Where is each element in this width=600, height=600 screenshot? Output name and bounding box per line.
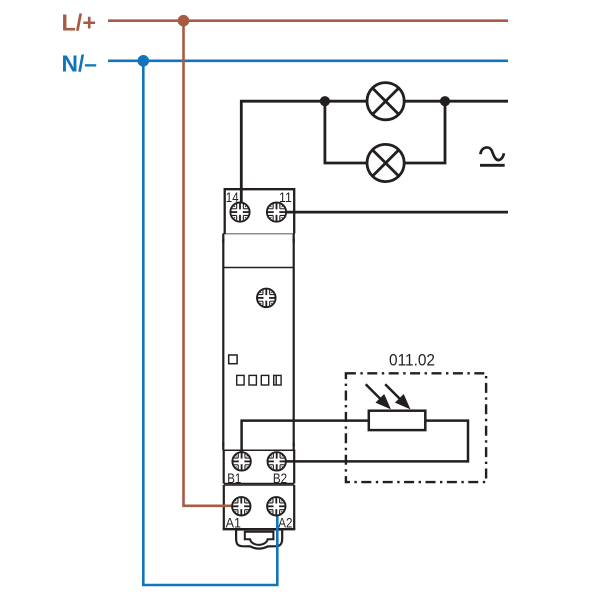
svg-text:B1: B1 bbox=[227, 470, 241, 486]
terminal screw A2 bbox=[267, 497, 285, 515]
indicator window square bbox=[229, 355, 237, 364]
svg-text:B2: B2 bbox=[273, 470, 287, 486]
terminal screw B2 bbox=[268, 452, 286, 470]
wire L to terminal A1 (brown) bbox=[184, 21, 234, 506]
wire from terminal 11 bbox=[277, 211, 509, 214]
photoresistor LDR body bbox=[369, 411, 426, 430]
wire B2 to photoresistor bbox=[277, 421, 468, 462]
svg-text:A2: A2 bbox=[278, 515, 292, 531]
relay module top terminal block bbox=[225, 189, 295, 233]
wire N to terminal A2 (blue) bbox=[143, 61, 277, 585]
terminal block A1 A2 bbox=[223, 485, 296, 529]
wire B1 to photoresistor bbox=[242, 421, 369, 462]
fixing screw center bbox=[257, 289, 276, 308]
terminal screw A1 bbox=[232, 497, 250, 515]
wire N/- supply line bbox=[108, 59, 508, 62]
wire lamp parallel branch right bbox=[404, 101, 445, 163]
photoresistor light arrow 2 bbox=[385, 384, 409, 408]
svg-text:14: 14 bbox=[226, 190, 239, 205]
relay module body outline bbox=[222, 234, 295, 451]
wire lamp top right segment bbox=[404, 100, 508, 103]
svg-text:N/–: N/– bbox=[62, 51, 98, 77]
terminal screw B1 bbox=[232, 452, 250, 470]
DIN rail clip bbox=[236, 530, 282, 549]
svg-text:L/+: L/+ bbox=[62, 10, 97, 36]
terminal screw 11 bbox=[267, 203, 286, 222]
junction on L/+ bbox=[178, 15, 190, 27]
svg-text:A1: A1 bbox=[226, 515, 242, 531]
wire from terminal 14 to lamps bbox=[241, 101, 367, 212]
junction lamp branch right bbox=[440, 96, 450, 106]
wire L/+ supply line bbox=[108, 19, 508, 22]
photoresistor enclosure 011.02 dash-dot box bbox=[346, 373, 486, 482]
svg-text:11: 11 bbox=[279, 190, 292, 205]
lamp 2 bbox=[367, 144, 404, 181]
junction on N/- bbox=[138, 55, 150, 67]
terminal block B1 B2 bbox=[223, 450, 296, 483]
junction lamp branch left bbox=[320, 96, 330, 106]
photoresistor light arrow 1 bbox=[366, 384, 390, 408]
lamp 1 bbox=[367, 83, 404, 120]
DIP switch row bbox=[237, 375, 281, 385]
terminal screw 14 bbox=[230, 203, 249, 222]
svg-text:011.02: 011.02 bbox=[389, 350, 435, 369]
AC supply symbol bbox=[480, 147, 505, 165]
wire lamp parallel branch left bbox=[325, 101, 367, 163]
